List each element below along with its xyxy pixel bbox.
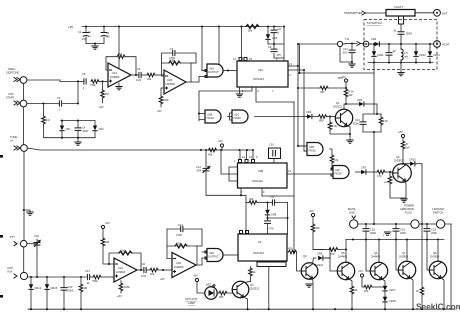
svg-text:0.22: 0.22 [136,78,142,82]
svg-text:9: 9 [263,190,265,194]
junction dots antivox line [30,276,32,278]
resistor R20 620k below U1C [117,281,130,299]
svg-text:CR17: CR17 [389,288,396,292]
diode CR1 [60,121,71,138]
ground Q2 [402,197,406,199]
svg-text:2.2k: 2.2k [384,180,390,184]
wire U3 bottom pin loop to U2B [199,87,252,121]
svg-text:Q8: Q8 [433,251,437,255]
wire U2B out to U2C in [228,113,233,120]
svg-text:CR8: CR8 [271,213,277,217]
svg-text:2N4400: 2N4400 [338,255,348,259]
connector J7 power amplifier plus [400,204,419,229]
node TRANSMITTER label [344,11,366,15]
capacitor C16 [353,114,366,132]
resistor R18 1M feedback U1C [109,249,141,271]
svg-text:U3A: U3A [258,68,263,72]
LED CR18 [383,297,396,310]
node +5V terminal [358,269,364,287]
wire bottom ground rail [28,308,455,310]
svg-text:SIDETONE: SIDETONE [6,71,19,75]
svg-text:C9: C9 [268,45,272,49]
T-R switch dashed box [364,20,437,70]
resistor R16 1M [79,277,87,309]
svg-text:CR11: CR11 [377,53,384,57]
wire left connector bus [23,83,26,240]
resistor R19 2M bias U1C [101,238,110,265]
wire left drop to U4 pin [245,203,247,235]
wire right edge drop [450,224,452,309]
svg-text:CR10: CR10 [409,158,416,162]
svg-text:C3: C3 [57,96,61,100]
node +8V Q2 [398,130,405,141]
junction dots ground rail [30,308,32,310]
capacitor C21 series [85,269,90,285]
svg-text:40k: 40k [208,153,213,157]
svg-text:+8V: +8V [309,209,314,213]
svg-text:U1A: U1A [112,71,117,75]
connector J8 cap/gnd switch [432,207,445,228]
svg-text:2.2k: 2.2k [332,124,338,128]
pin boxes U3B top [239,160,255,163]
svg-text:680: 680 [319,119,324,123]
resistor R31 47 2W [401,141,410,164]
wire VOX network bottom rail [44,137,96,139]
connector J1 400Hz sidetone [6,67,27,83]
svg-text:+8V: +8V [193,274,198,278]
svg-text:2.2k: 2.2k [383,119,389,123]
LED CR17 [383,286,396,297]
svg-text:.1: .1 [58,108,61,112]
resistor R7 500k feedback U1B [162,59,192,83]
junction dots collector rail [352,238,354,240]
svg-text:200: 200 [364,289,369,293]
svg-text:2000: 2000 [68,289,74,293]
wire U3B left feedback loop [229,167,238,181]
wire mute/power line [358,223,451,225]
svg-text:U2B: U2B [207,113,212,117]
diode CR5 [346,98,377,106]
pin strip U4 bottom [257,262,286,267]
wire U1A output [131,74,138,76]
capacitor C8 [271,27,281,45]
svg-text:AMPLIFIER: AMPLIFIER [400,207,414,211]
capacitor C24 500V [393,29,412,45]
svg-text:14: 14 [242,155,245,159]
wire Q3 collector up [313,258,317,264]
wire U1C output [137,269,143,271]
svg-text:+8V: +8V [99,105,104,109]
resistor R14 2.2k filter [379,114,388,132]
svg-text:SN74123: SN74123 [252,179,263,183]
op-amp U1C [114,258,137,282]
wire T-R sense line circle [300,41,346,46]
wire U2E input2 [202,251,207,253]
resistor R28 470 [313,248,347,256]
svg-text:680: 680 [219,295,224,299]
ground VOX network [77,138,79,142]
wire Q6 emitter [382,279,385,286]
wire VOX to 400Hz junction [77,81,79,103]
connector ANT [434,9,448,16]
node +8V LED feed [193,274,205,294]
svg-text:50k: 50k [248,29,253,33]
svg-text:500k: 500k [176,242,182,246]
wire transmitter to coax tee [366,12,386,14]
diode CR21 in T-R [372,44,384,63]
svg-text:U2D: U2D [309,145,314,149]
svg-text:C18: C18 [370,228,375,232]
node +8V Q1 [341,75,348,89]
svg-text:15V: 15V [82,37,87,41]
svg-text:1M: 1M [84,286,88,290]
svg-text:1M: 1M [118,52,122,56]
wire VOX start line [27,103,59,105]
svg-text:74C00: 74C00 [233,116,241,120]
wire CR8 to right drop [268,217,288,219]
svg-text:CR14: CR14 [35,286,42,290]
svg-text:+8V: +8V [160,277,165,281]
transistor Q4 [232,281,259,298]
IC U3B SN74123 [238,163,288,188]
svg-text:COAX T: COAX T [394,5,404,9]
transistor Q7 [398,251,415,279]
gate U2A [205,64,223,78]
capacitor C1 [78,27,92,44]
transistor Q1 [333,101,353,127]
svg-text:1: 1 [278,31,280,35]
svg-text:6: 6 [256,155,258,159]
connector J6 mute line [348,207,358,228]
svg-text:Q3: Q3 [303,254,307,258]
svg-text:47: 47 [406,142,409,146]
svg-text:C19: C19 [400,228,405,232]
wire +8V drop to gate U2A top [218,27,220,65]
diode CR15 [45,277,58,309]
node +8V terminal mid [218,139,224,150]
wire collector rail bottom [346,239,444,241]
wire U1B output to gate U2A [186,77,207,83]
scan mark left edge 3 [0,295,3,298]
svg-text:C5: C5 [82,72,86,76]
svg-text:(: ( [383,233,384,237]
capacitor C13 feedback U1D [167,223,202,246]
pin boxes U3 top [239,58,247,61]
wire C14 line to cluster [206,195,246,202]
wire T3 collector drop [406,240,408,262]
wire T1 collector drop [345,240,347,263]
svg-text:MUTE: MUTE [348,207,356,211]
svg-text:.004: .004 [196,169,202,173]
svg-text:20k: 20k [147,77,152,81]
svg-text:74C00: 74C00 [334,172,342,176]
wire bus A vertical [293,102,295,252]
svg-text:LAMP: LAMP [188,301,195,305]
svg-text:430: 430 [288,247,293,251]
junction dots on +8V rail [85,25,87,27]
svg-text:C16: C16 [355,118,360,122]
svg-text:C8: C8 [278,27,282,31]
svg-text:Q6: Q6 [374,251,378,255]
connector RCVR [434,41,450,48]
gate U2B [205,110,221,123]
svg-text:C22: C22 [270,195,275,199]
svg-text:LM3900: LM3900 [110,75,120,79]
svg-text:U2C: U2C [234,113,239,117]
wire T2 base drop [366,240,371,272]
svg-text:C1: C1 [78,30,82,34]
svg-text:Q2: Q2 [396,155,400,159]
wire +8V drop to op-amp U1A V+ [118,27,120,69]
capacitor C2 [101,27,110,44]
svg-text:2N2222: 2N2222 [314,263,324,267]
op-amp U1A [108,63,131,87]
wire +8V drop to gate U2A input [202,27,207,71]
svg-text:SWITCH: SWITCH [433,211,443,215]
diode CR23 in T-R [428,44,440,63]
svg-text:CR15: CR15 [51,286,58,290]
op-amp U1D [172,253,196,278]
svg-text:10: 10 [88,30,91,34]
svg-text:7: 7 [272,89,274,93]
wire CR3/C8 tie [268,43,284,45]
svg-text:4700: 4700 [169,56,175,60]
svg-text:74C00: 74C00 [308,149,316,153]
svg-text:C15: C15 [431,228,436,232]
wire +8V top rail [82,26,282,28]
wire CR1 top stub [61,120,62,122]
ground Q1 emitter [347,140,353,143]
svg-text:SN74123: SN74123 [253,251,264,255]
capacitor C5 input series [84,79,86,84]
svg-text:1k: 1k [253,270,256,274]
svg-text:.1: .1 [82,86,85,90]
wire Q7 emitter [410,278,413,309]
svg-text:U1C: U1C [118,266,123,270]
wire Q2 collector node [403,164,410,165]
wire filter bottom rail [363,131,381,133]
wire C1-C2 bottom tie [86,43,104,45]
svg-text:470: 470 [269,227,274,231]
svg-text:2000: 2000 [370,231,376,235]
ground C17 [351,62,353,64]
ground U1A V- [118,83,120,86]
wire Q5 emitter [349,279,352,286]
svg-text:470: 470 [277,53,282,57]
wire Q4 base in [231,289,233,291]
capacitor C19 [393,224,406,240]
node +8V Q3 [309,209,315,224]
svg-text:+8V: +8V [105,221,110,225]
label anti-vox lamp [185,297,198,305]
wire U2E output to U4 [224,254,239,256]
resistor R25 1k [249,267,257,282]
wire U3B top pins to tune rail [240,150,253,163]
svg-text:.05: .05 [106,35,110,39]
svg-text:SeekIC.com: SeekIC.com [416,302,460,312]
capacitor C18 [363,224,376,240]
svg-text:CR18: CR18 [389,299,396,303]
svg-text:PTT: PTT [10,235,15,239]
resistor R34 on bus D [416,224,424,309]
svg-text:U2D: U2D [209,251,214,255]
wire filter top rail [363,113,381,115]
svg-text:4: 4 [289,73,291,77]
svg-text:2M: 2M [106,240,110,244]
wire T4 collector drop [437,240,439,262]
connector J3 tune A+ [10,135,27,151]
scan mark left edge 1 [0,155,3,158]
resistor R12 40k on tune rail [208,148,217,156]
capacitor C26 at PTT [27,234,40,250]
capacitor C3 on VOX line [57,96,78,112]
resistor R15 2.2k Q1 base bias [328,117,350,135]
wire U4 right pin to R26 [287,251,289,253]
diode CR4 [371,37,379,46]
svg-text:+8V: +8V [68,25,73,29]
svg-text:620k: 620k [124,285,130,289]
svg-text:+8V: +8V [341,75,346,79]
svg-text:2k: 2k [416,289,419,293]
svg-text:20k: 20k [150,272,155,276]
svg-text:U2F: U2F [335,168,340,172]
resistor R4 1M feedback U1A [106,52,136,75]
resistor R3 2M bias [99,80,109,109]
svg-text:+8V: +8V [218,139,223,143]
wire T-R bottom to y73 line [373,63,375,115]
svg-text:+: + [90,35,92,38]
resistor R27 43k [311,224,325,250]
svg-text:LM3900: LM3900 [174,265,184,269]
svg-text:C14: C14 [196,165,201,169]
capacitor C10 box [269,143,281,164]
connector J4 PTT [10,235,27,247]
node +8V bias U1C [101,221,110,238]
svg-text:T-R SWITCH: T-R SWITCH [367,21,382,25]
IC U4 SN74123 [238,234,287,261]
svg-text:2N2907: 2N2907 [394,159,404,163]
resistor R9 680 [319,115,336,123]
svg-text:750k: 750k [92,279,98,283]
pin boxes U4 top [240,231,249,234]
svg-text:4700: 4700 [176,233,182,237]
wire CR5 to filter [376,104,378,114]
junction dots mute line [365,223,367,225]
junction dots on tune rail [200,149,202,151]
svg-text:CR3: CR3 [272,36,278,40]
svg-text:360: 360 [320,90,325,94]
wire 400Hz sidetone line [27,80,81,81]
resistor R32 2k [350,286,358,309]
resistor R10 4.7k 2W [344,87,354,104]
svg-text:POWER: POWER [404,204,414,208]
resistor R21 20k [146,268,172,281]
svg-text:2N2222: 2N2222 [250,287,260,291]
svg-text:400Hz: 400Hz [8,67,16,71]
svg-text:U4: U4 [258,240,262,244]
capacitor C11 coupling [141,262,147,278]
junction dots T-R rail [400,43,402,45]
resistor R30 2.2k Q2 base [384,172,402,198]
wire bus B vertical [298,44,307,146]
svg-text:C10: C10 [269,143,274,147]
svg-text:CR6: CR6 [306,110,312,114]
svg-text:13: 13 [289,62,292,66]
svg-text:+8V: +8V [117,294,122,298]
svg-text:LM3900: LM3900 [166,82,176,86]
resistor R17 750k [90,275,114,283]
svg-text:2N2222: 2N2222 [333,105,343,109]
diode CR14 [29,277,42,309]
svg-text:2N3904: 2N3904 [430,255,440,259]
wire U2D inputs [298,146,307,151]
ground mute caps [383,232,391,237]
svg-text:750k: 750k [90,83,96,87]
svg-text:500V: 500V [406,32,412,36]
wire +8V drop to U3 pin 14 [241,27,243,62]
wire U3B bottom pin stub 1 [240,188,242,195]
ground U3 pin [239,87,241,94]
wire Q4 collector to R25 [244,282,251,283]
wire C9 to U3 top [274,27,284,62]
resistor R24 30k [246,197,269,204]
svg-text:CR2: CR2 [99,127,105,131]
diode CR6 [306,110,318,119]
gate U2F [331,166,349,179]
resistor R11 360 drive [298,86,346,94]
svg-text:TUNE: TUNE [10,135,17,139]
svg-text:U2A: U2A [209,67,214,71]
svg-text:9: 9 [257,89,259,93]
wire Q2 emitter ground [405,181,408,198]
wire U3B bottom pin stub 2 [262,188,294,196]
diode CR10 [409,158,422,166]
ground below C1/C2 [94,44,96,47]
svg-text:C4: C4 [82,126,86,130]
wire bus C vertical [304,70,307,151]
resistor R5 20k [141,73,164,81]
diode CR7 [361,166,377,175]
svg-text:5000: 5000 [353,122,359,126]
svg-text:VOX: VOX [7,270,13,274]
op-amp U1B [164,70,186,94]
wire C26 drop to antivox line [36,250,38,277]
svg-text:TRANSMITTER: TRANSMITTER [344,11,363,15]
gate U2E [205,249,223,262]
svg-text:LED: LED [206,283,211,287]
svg-text:START: START [6,96,15,100]
diode CR8 [265,203,276,220]
resistor R8 620k bias U1B [157,88,169,113]
svg-text:1: 1 [234,159,236,163]
wire U2A inputs stub [202,70,207,72]
wire U3 bottom pin to bus A [256,87,294,102]
wire T-R inner top rail [368,43,434,45]
ground marks Q3 [306,284,312,287]
svg-text:CR4: CR4 [371,37,377,41]
svg-text:PLUS: PLUS [405,211,412,215]
svg-text:CR7: CR7 [361,166,367,170]
transistor Q2 [392,155,411,182]
resistor R1 1M vertical [42,102,50,137]
wire PTT bus down [23,247,25,272]
coax tee [386,5,415,24]
svg-text:2000: 2000 [400,231,406,235]
svg-text:.01: .01 [393,29,397,33]
resistor R22 500k feedback U1D [167,242,197,266]
svg-text:CAP/GND: CAP/GND [432,207,444,211]
svg-text:SN74123: SN74123 [253,77,264,81]
